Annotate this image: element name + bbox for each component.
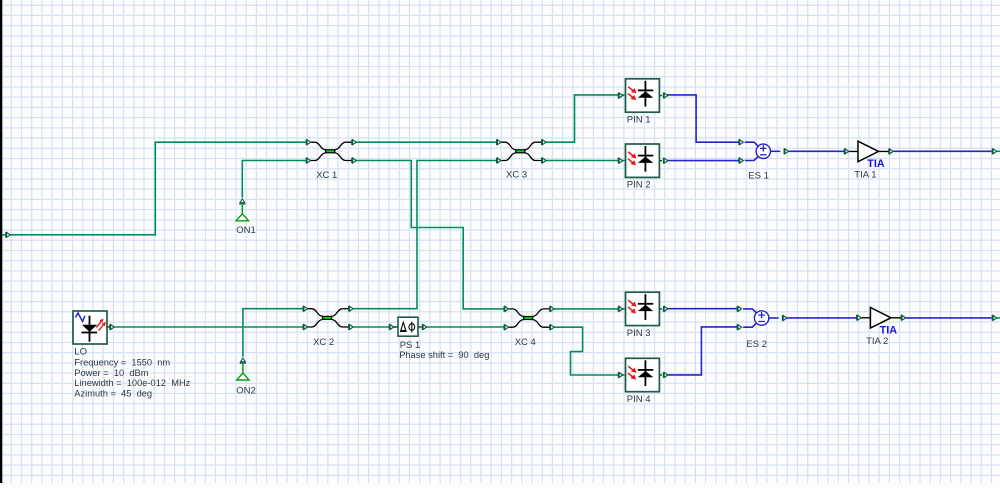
svg-text:ES 2: ES 2 — [746, 339, 767, 350]
wire XC3 out1 to PIN1 — [546, 95, 625, 142]
wire PIN1 to ES1 in1 — [667, 95, 740, 142]
input port — [5, 232, 10, 238]
wire ES2 to TIA2 — [787, 317, 857, 319]
wire output port 2 stub — [996, 317, 1000, 319]
wire PIN4 to ES2 in2 — [667, 327, 738, 375]
amplifier TIA 1 — [848, 141, 889, 162]
photodiode PIN 3 — [626, 292, 660, 325]
coupler XC 4 — [508, 309, 549, 327]
svg-text:XC 1: XC 1 — [316, 170, 337, 181]
svg-text:TIA 2: TIA 2 — [866, 336, 888, 347]
svg-text:TIA 1: TIA 1 — [854, 170, 876, 181]
phase shifter PS 1 — [394, 317, 422, 336]
output port 2 — [992, 315, 997, 321]
wire PIN2 to ES1 in2 — [667, 160, 740, 162]
svg-text:PIN 3: PIN 3 — [627, 328, 651, 339]
svg-text:XC 3: XC 3 — [506, 170, 527, 181]
photodiode PIN 1 — [626, 79, 660, 112]
coupler XC 1 — [310, 142, 351, 160]
optical null ON1 — [241, 205, 243, 215]
coupler XC 2 — [307, 309, 348, 327]
amplifier TIA 2 — [860, 308, 901, 329]
svg-text:TIA: TIA — [867, 158, 885, 170]
svg-text:Power = 10 dBm: Power = 10 dBm — [74, 368, 148, 378]
photodiode PIN 4 — [626, 358, 660, 391]
subtractor ES 1 — [745, 142, 781, 160]
wire PIN3 to ES2 in1 — [667, 308, 738, 310]
wire TIA2 to output 2 — [904, 317, 992, 319]
wire XC3 out2 to PIN2 — [546, 160, 625, 162]
wire ON1 to XC1 in2 — [242, 161, 305, 198]
svg-text:XC 2: XC 2 — [313, 337, 334, 348]
svg-text:ES 1: ES 1 — [748, 170, 769, 181]
svg-text:Azimuth = 45 deg: Azimuth = 45 deg — [74, 388, 152, 398]
wire XC2 out1 to XC3 in2 — [353, 161, 497, 309]
svg-text:PIN 4: PIN 4 — [627, 394, 651, 405]
svg-text:Frequency = 1550 nm: Frequency = 1550 nm — [74, 358, 170, 368]
wire ES1 to TIA1 — [788, 150, 845, 152]
coupler XC 3 — [501, 142, 542, 160]
svg-text:Phase shift = 90 deg: Phase shift = 90 deg — [399, 350, 489, 360]
wire XC4 out1 to PIN3 — [554, 308, 625, 310]
laser LO — [73, 311, 109, 344]
wire XC4 out2 to PIN4 — [554, 327, 625, 375]
svg-text:LO: LO — [74, 347, 87, 358]
wire LO to XC2 in2 — [109, 326, 303, 328]
subtractor ES 2 — [743, 309, 779, 327]
wire TIA1 to output 1 — [893, 150, 992, 152]
svg-text:PIN 2: PIN 2 — [627, 180, 651, 191]
output port 1 — [992, 149, 997, 155]
svg-text:Linewidth = 100e-012 MHz: Linewidth = 100e-012 MHz — [74, 378, 190, 388]
wire ON2 to XC2 in1 — [243, 309, 303, 357]
optical null ON2 — [242, 364, 244, 374]
wire PS1 to XC4 in2 — [421, 326, 504, 328]
photodiode PIN 2 — [626, 144, 660, 177]
svg-text:PIN 1: PIN 1 — [627, 115, 651, 126]
wire XC1 out2 to XC4 in1 — [356, 161, 504, 309]
svg-text:ON1: ON1 — [236, 225, 256, 236]
wire XC1 out1 to XC3 in1 — [356, 141, 496, 143]
svg-text:ON2: ON2 — [236, 385, 256, 396]
wire output port 1 stub — [996, 150, 1000, 152]
svg-text:XC 4: XC 4 — [515, 337, 536, 348]
wire XC2 out2 to PS1 — [353, 326, 396, 328]
svg-text:TIA: TIA — [880, 324, 898, 336]
wire input to XC1 in1 — [2, 142, 305, 235]
